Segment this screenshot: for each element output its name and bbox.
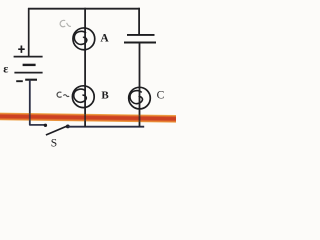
battery plate short bottom xyxy=(25,79,37,81)
svg-text:S: S xyxy=(51,138,57,150)
switch S blade xyxy=(46,126,67,135)
wire middle branch vertical xyxy=(84,8,86,127)
filament loop A xyxy=(74,31,86,44)
battery plate long lower xyxy=(14,72,42,74)
switch pivot dot xyxy=(66,125,70,129)
lamp B xyxy=(57,86,109,108)
wire bottom-left horizontal xyxy=(29,124,45,126)
capacitor bottom plate xyxy=(124,42,156,44)
annotation C near lamp A xyxy=(60,20,65,26)
orange highlighter line xyxy=(0,113,180,123)
svg-text:ε: ε xyxy=(3,62,8,76)
svg-text:C: C xyxy=(157,90,165,102)
wire bottom rail xyxy=(68,126,145,128)
battery EMF source xyxy=(3,46,42,82)
lamp A xyxy=(60,20,109,49)
wire right branch lower vertical xyxy=(139,43,141,127)
filament loop C xyxy=(130,91,142,104)
background paper xyxy=(0,0,176,153)
battery plate long top xyxy=(14,56,43,58)
svg-text:B: B xyxy=(101,90,109,102)
highlighter overlay pass xyxy=(0,113,180,123)
switch left contact dot xyxy=(44,124,47,127)
minus sign xyxy=(16,80,23,82)
wire capacitor top lead xyxy=(138,8,140,35)
svg-text:A: A xyxy=(100,33,109,45)
filament loop B xyxy=(74,89,86,102)
wire battery top vertical xyxy=(28,8,30,56)
wire battery bottom vertical xyxy=(29,80,31,126)
capacitor xyxy=(124,8,156,43)
lamp C xyxy=(129,87,165,109)
wire top rail xyxy=(28,8,140,10)
plus sign xyxy=(18,46,25,53)
capacitor top plate xyxy=(127,34,155,36)
battery plate short xyxy=(23,64,36,66)
annotation c near lamp B xyxy=(57,92,62,97)
